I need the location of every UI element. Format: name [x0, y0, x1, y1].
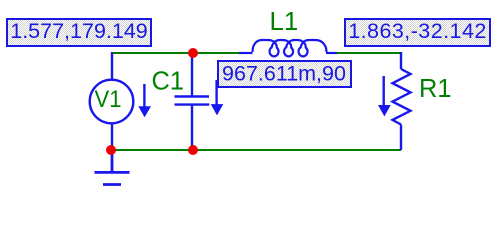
node junction dot bottom V1	[106, 145, 116, 155]
resistor R1	[393, 52, 411, 150]
inductor L1	[239, 40, 337, 56]
wire top net V1 to L1	[112, 52, 240, 54]
value box 967.611m,90	[218, 61, 351, 87]
R1 current arrow	[378, 76, 391, 116]
C1 current arrow	[211, 80, 224, 115]
svg-text:V1: V1	[95, 86, 122, 113]
svg-text:C1: C1	[152, 66, 185, 96]
capacitor C1	[175, 52, 210, 150]
value box 1.863,-32.142	[345, 19, 490, 46]
voltage source V1	[90, 52, 134, 150]
svg-text:967.611m,90: 967.611m,90	[222, 62, 346, 86]
V1 current arrow	[138, 84, 151, 117]
svg-text:R1: R1	[419, 73, 452, 103]
node junction dot bottom C1	[188, 145, 198, 155]
wire bottom net	[111, 149, 401, 151]
node junction dot top C1	[188, 48, 198, 58]
value box 1.577,179.149	[7, 19, 151, 46]
wire L1 to R1 top	[336, 52, 401, 54]
svg-text:1.577,179.149: 1.577,179.149	[10, 19, 148, 43]
svg-text:L1: L1	[270, 6, 299, 36]
svg-text:1.863,-32.142: 1.863,-32.142	[348, 19, 487, 43]
ground	[95, 150, 130, 185]
